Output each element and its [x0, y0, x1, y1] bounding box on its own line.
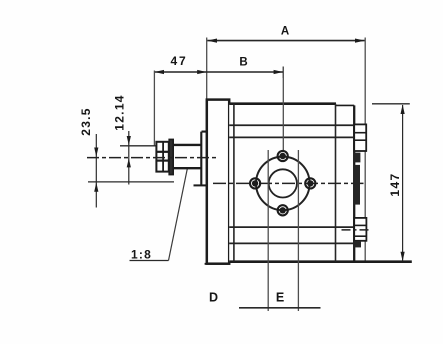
- dim 147 line: [402, 105, 404, 261]
- bolt right: [305, 178, 315, 188]
- dim E line: [239, 307, 321, 309]
- body right edge: [353, 105, 355, 261]
- shaft nut: [156, 142, 168, 172]
- rear lower block: [354, 241, 361, 248]
- rear small block: [354, 153, 360, 163]
- svg-text:23.5: 23.5: [79, 107, 93, 136]
- E extension line right: [297, 150, 299, 311]
- bearing boss bottom line: [194, 184, 207, 186]
- lower boss centerline: [342, 229, 369, 231]
- bolt left: [250, 178, 260, 188]
- svg-text:147: 147: [388, 172, 402, 196]
- flange plate: [207, 100, 229, 264]
- rear top port boss: [354, 124, 366, 151]
- body inner line top2: [229, 136, 354, 138]
- svg-text:D: D: [209, 291, 218, 305]
- svg-text:A: A: [281, 26, 289, 38]
- port centerline horizontal: [213, 182, 364, 184]
- E extension line left: [267, 150, 269, 311]
- shaft: [174, 145, 202, 168]
- dim 12.14 line: [128, 131, 130, 185]
- port flange outer circle: [256, 157, 310, 211]
- extension line y=146: [120, 145, 156, 147]
- extension line y=182: [88, 181, 174, 183]
- body inner line top1: [229, 124, 354, 126]
- rear cover joint line: [335, 104, 337, 262]
- dim A extension line left: [206, 38, 208, 100]
- body top edge: [229, 102, 336, 105]
- ext line at shaft end: [153, 71, 155, 147]
- flange bottom lip: [205, 263, 230, 265]
- rear lower port boss: [354, 218, 366, 241]
- dim 23.5 line: [95, 134, 97, 208]
- svg-text:47: 47: [171, 54, 188, 68]
- body outline: [229, 104, 354, 262]
- body rear top edge: [336, 104, 355, 106]
- shaft washer: [169, 139, 173, 174]
- dim B end tick: [282, 67, 284, 79]
- dim 147 top extension: [372, 103, 410, 105]
- body bottom edge + 147 extension: [229, 260, 412, 263]
- body inner line bottom1: [229, 226, 354, 228]
- front cover joint line: [233, 104, 235, 262]
- bolt bottom: [278, 205, 288, 215]
- taper leader underline: [130, 260, 169, 262]
- dim A extension line right: [364, 38, 366, 262]
- dim 47/B line: [154, 71, 283, 73]
- port bore circle: [269, 169, 297, 197]
- bearing boss: [201, 132, 207, 186]
- svg-text:1:8: 1:8: [131, 248, 152, 262]
- body inner line bottom2: [229, 242, 354, 244]
- bolt top: [278, 151, 288, 161]
- taper leader line: [169, 169, 188, 261]
- svg-text:E: E: [276, 291, 284, 305]
- dim A line: [207, 40, 365, 42]
- svg-text:12.14: 12.14: [113, 94, 127, 131]
- ext line B down to port bolt: [282, 78, 284, 150]
- svg-text:B: B: [239, 57, 247, 69]
- shaft centerline (dash-dot): [87, 157, 219, 159]
- side port band: [354, 165, 360, 205]
